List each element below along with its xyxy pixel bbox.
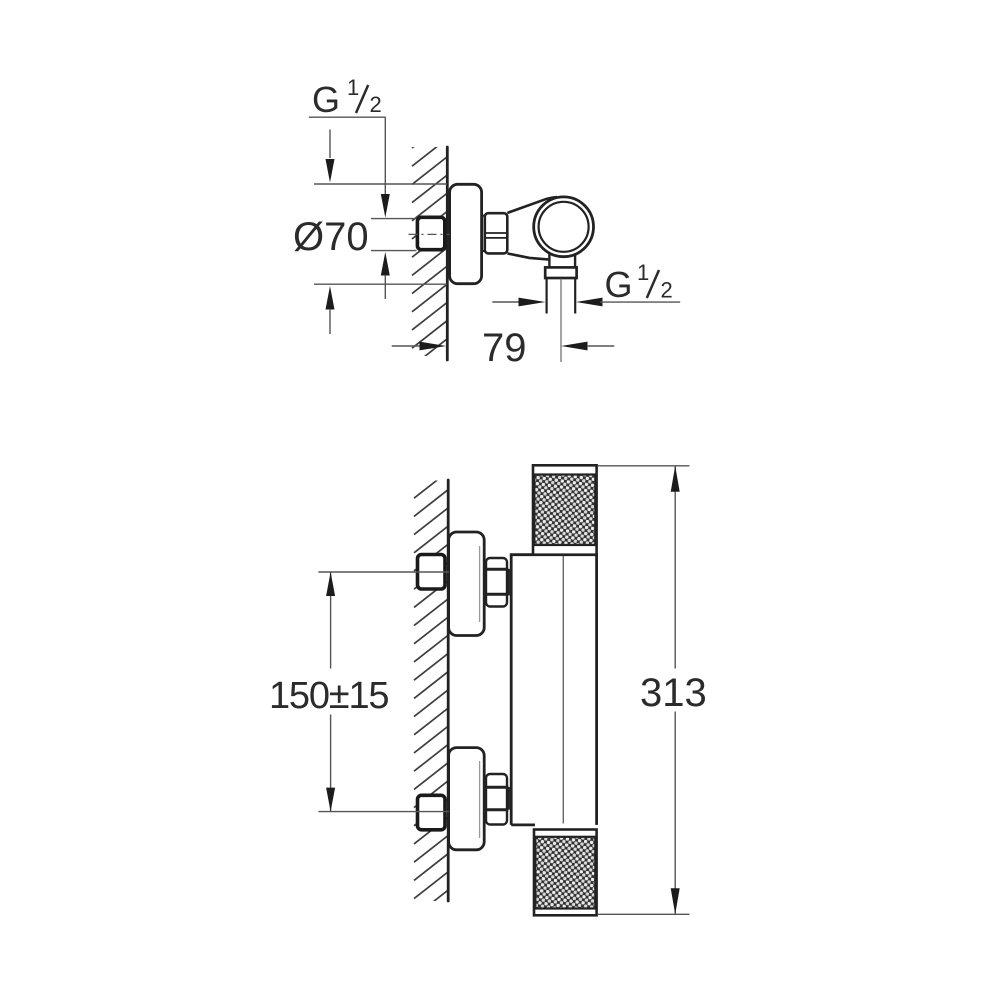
313 dim extension line top <box>598 465 690 467</box>
dia70 arrow down <box>329 130 331 159</box>
wall face line (top view) <box>446 147 449 360</box>
313 dim extension line bottom <box>598 913 690 915</box>
valve body cone (top view) <box>507 197 557 213</box>
wall hatching (top view) <box>412 120 447 384</box>
thread extension line top <box>371 218 417 220</box>
label G 1/2 (right) with underline <box>600 301 680 303</box>
union nut (top view) <box>485 213 508 253</box>
79 dimension left arrow <box>392 345 420 347</box>
mixer body (bottom view) <box>511 555 596 825</box>
bottom wall nipple (bottom view) <box>418 795 446 830</box>
leader underline of G 1/2 top <box>309 116 386 118</box>
svg-text:1: 1 <box>637 260 649 285</box>
svg-text:Ø70: Ø70 <box>293 215 369 259</box>
150 dim vertical line <box>330 572 332 669</box>
thread extension line bottom <box>371 250 417 252</box>
dia70 arrow up <box>326 286 335 310</box>
nipple dash-dot centerline <box>409 233 450 235</box>
313 dim vertical line <box>674 466 676 669</box>
svg-text:2: 2 <box>661 278 673 303</box>
150 dim extension line top <box>318 571 449 573</box>
wall hatching (bottom view) <box>414 453 448 935</box>
body inner line <box>562 556 564 824</box>
top knurled knob (bottom view) <box>533 465 597 554</box>
79 dimension right arrow <box>561 342 588 351</box>
outlet pipe <box>545 278 547 313</box>
thermostat handle outer circle (top view) <box>534 197 594 257</box>
label G 1/2 (top left) <box>312 75 382 120</box>
svg-text:1: 1 <box>347 75 359 100</box>
svg-text:G: G <box>312 79 340 120</box>
outlet neck below circle <box>548 254 550 269</box>
thermostat handle inner circle <box>539 202 589 252</box>
svg-text:150±15: 150±15 <box>269 675 388 717</box>
svg-text:313: 313 <box>640 671 707 715</box>
wall nipple (top view) <box>417 217 444 249</box>
pipe G1/2 dimension arrows <box>492 301 519 303</box>
leader drop line to thread <box>384 117 386 196</box>
top escutcheon flange (bottom view) <box>449 532 485 636</box>
wall face line (bottom view) <box>447 480 450 901</box>
150 dim extension line bottom <box>318 811 449 813</box>
bottom knurled knob (bottom view) <box>534 830 597 916</box>
dia70 extension line top <box>314 183 447 185</box>
pipe centerline <box>560 279 562 363</box>
dia70 extension line bottom <box>314 283 447 285</box>
top union nut (bottom view) <box>484 570 509 594</box>
arrow down to thread top <box>381 194 390 218</box>
connector ticks flange to nut <box>481 215 486 217</box>
top wall nipple (bottom view) <box>418 555 446 590</box>
bottom escutcheon flange (bottom view) <box>449 748 485 850</box>
escutcheon flange (top view) <box>450 184 482 283</box>
svg-text:79: 79 <box>482 326 527 370</box>
svg-text:2: 2 <box>370 92 382 117</box>
bottom union nut (bottom view) <box>484 788 509 809</box>
arrow up to thread bottom <box>381 252 390 276</box>
svg-text:G: G <box>605 264 633 305</box>
outlet collar nut <box>545 267 576 278</box>
